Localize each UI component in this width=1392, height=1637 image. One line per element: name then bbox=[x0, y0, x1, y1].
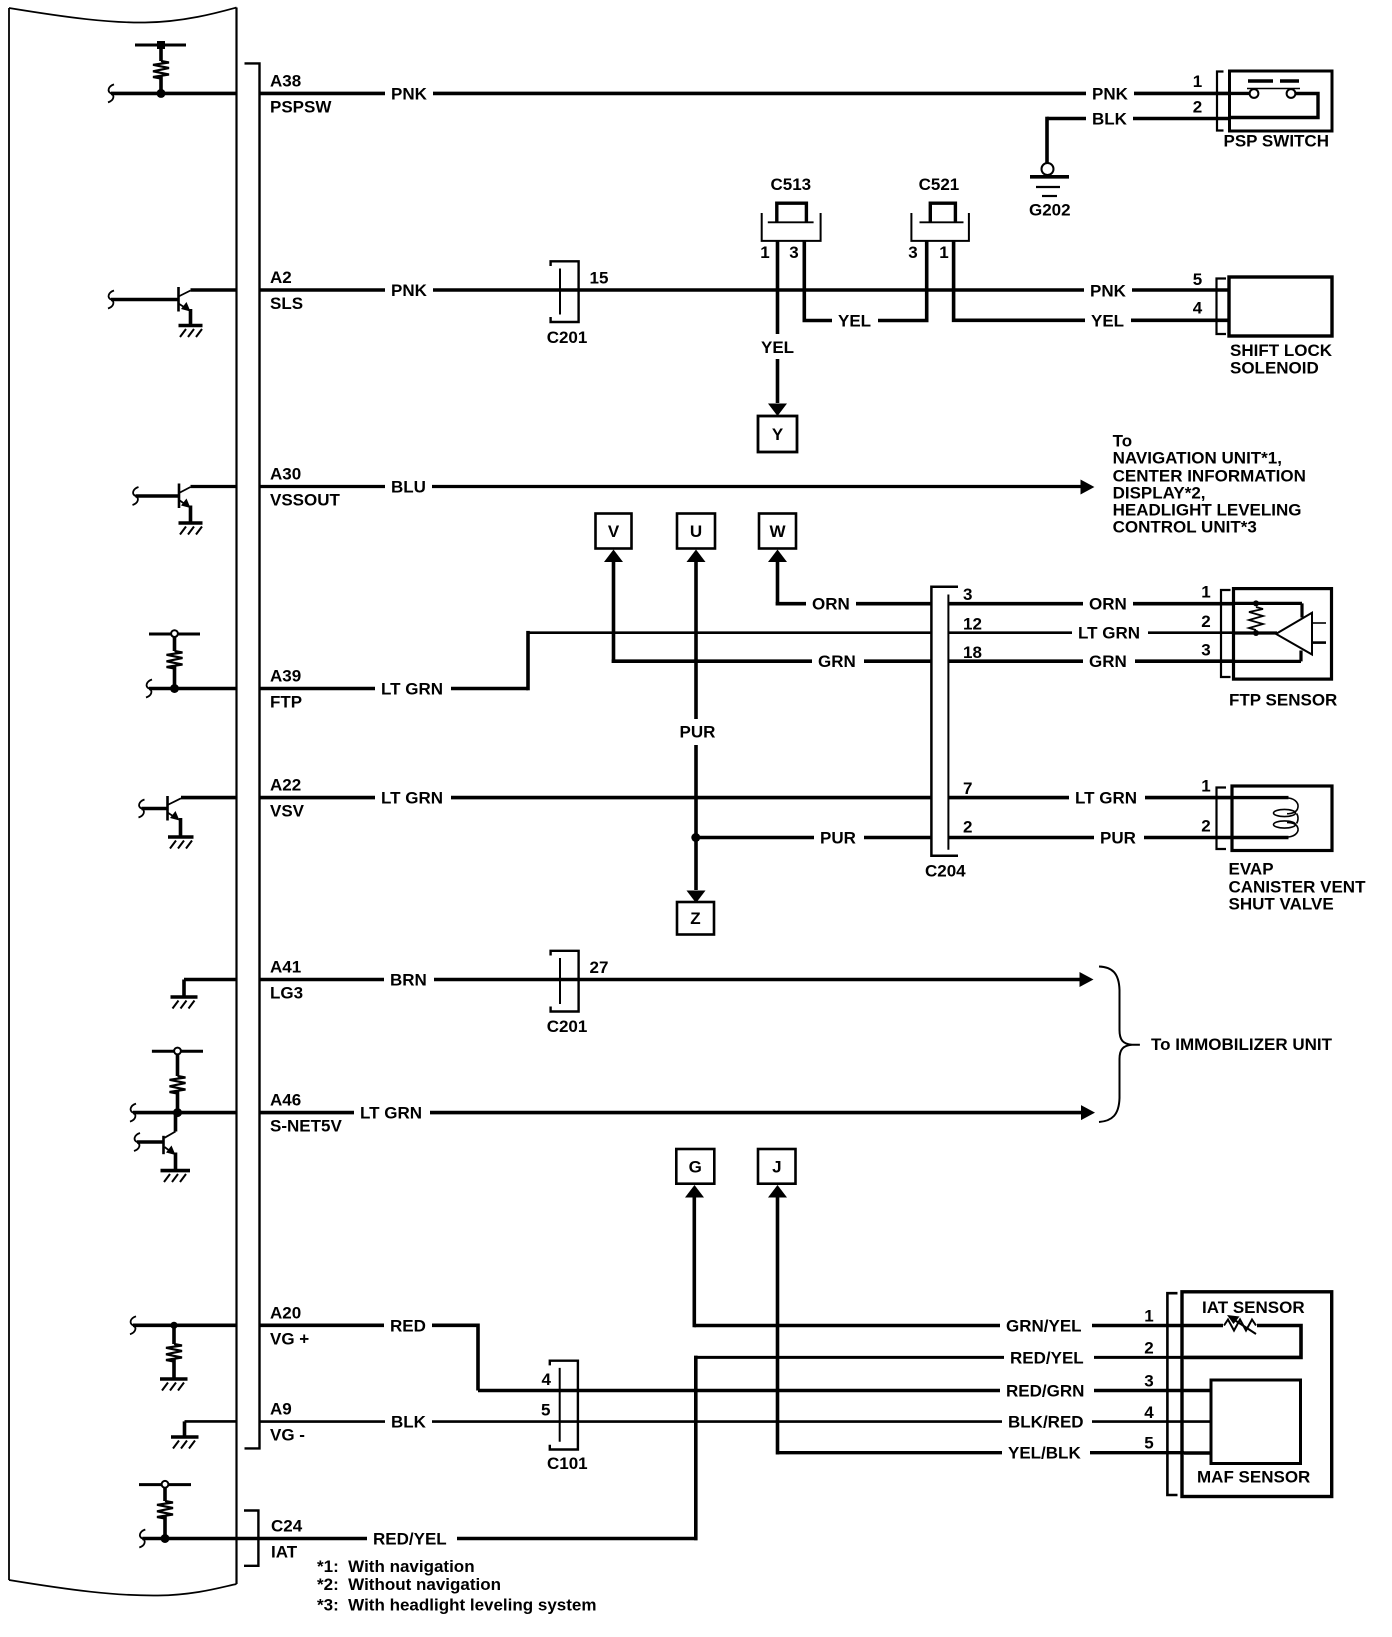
wire C101 pin4 to MAF pin 3 (RED/GRN) bbox=[560, 1389, 1184, 1393]
svg-text:3: 3 bbox=[908, 243, 917, 262]
wire A9 VG- row (BLK) through C101 pin5 to MAF pin 4 (BLK/RED) bbox=[261, 1420, 1185, 1423]
wire A2 SLS row (PNK) bbox=[261, 288, 1230, 292]
ground (A9 VG-) bbox=[171, 1435, 199, 1439]
wire label RED/GRN bbox=[1000, 1381, 1094, 1401]
wire label GRN (left) bbox=[812, 651, 864, 671]
wire A39 in-band bbox=[149, 687, 237, 691]
wire collector A2 to band edge bbox=[191, 288, 238, 292]
wire GRN/YEL row to MAF pin 1 bbox=[694, 1324, 1184, 1328]
svg-text:EVAP: EVAP bbox=[1229, 860, 1274, 879]
wire C24 IAT row (RED/YEL) bbox=[142, 1537, 697, 1541]
svg-text:A38: A38 bbox=[270, 71, 301, 90]
connector C201 (A41 row) bbox=[551, 951, 579, 1012]
wire label LT GRN (EVAP) bbox=[1069, 788, 1145, 808]
connector C101 bbox=[550, 1361, 578, 1450]
svg-text:FTP: FTP bbox=[270, 693, 302, 712]
transistor Q (A46) emitter with arrow bbox=[165, 1147, 173, 1153]
svg-text:J: J bbox=[772, 1158, 781, 1177]
svg-text:A46: A46 bbox=[270, 1091, 301, 1110]
svg-text:PNK: PNK bbox=[1092, 84, 1129, 103]
arrow into V bbox=[604, 550, 623, 563]
wire J vertical bbox=[776, 1190, 780, 1455]
wire label LT GRN (A39) bbox=[375, 679, 451, 699]
resistor (A20 VG+ load) bbox=[166, 1344, 182, 1362]
FTP sensor internal amplifier triangle bbox=[1276, 613, 1312, 655]
svg-text:PNK: PNK bbox=[391, 281, 428, 300]
wire label RED/YEL (C24) bbox=[367, 1529, 457, 1549]
FTP sensor internal resistor bbox=[1249, 607, 1263, 630]
ground G (A41 LG3) bbox=[171, 995, 198, 999]
wire-end hook A22 bbox=[139, 800, 145, 818]
wire PUR row to C204 pin 2 bbox=[696, 836, 931, 840]
svg-text:RED/GRN: RED/GRN bbox=[1006, 1382, 1084, 1401]
svg-text:ORN: ORN bbox=[812, 595, 850, 614]
svg-text:MAF SENSOR: MAF SENSOR bbox=[1197, 1468, 1310, 1487]
svg-text:1: 1 bbox=[939, 243, 948, 262]
pull-up supply bar A46 with circle bbox=[152, 1050, 203, 1053]
wire A30 VSSOUT row (BLU) bbox=[261, 485, 1082, 488]
wire YEL/BLK row from J to MAF pin 5 bbox=[778, 1451, 1185, 1454]
wire-end hook A38 bbox=[108, 84, 114, 102]
svg-text:1: 1 bbox=[1201, 583, 1210, 602]
ECM connector bracket (A-side) bbox=[245, 63, 260, 1448]
wire base lead A30 bbox=[136, 494, 180, 498]
svg-text:DISPLAY*2,: DISPLAY*2, bbox=[1113, 483, 1206, 502]
pull-up supply bar C24 with circle bbox=[139, 1483, 191, 1486]
svg-text:4: 4 bbox=[542, 1370, 552, 1389]
wire A20 jog down to C101 pin 4 bbox=[478, 1324, 560, 1391]
FTP sensor internal pin2 wire bbox=[1235, 631, 1277, 634]
svg-text:SHIFT LOCK: SHIFT LOCK bbox=[1230, 341, 1333, 360]
wire A46 S-NET5V row (LT GRN) bbox=[261, 1111, 1082, 1115]
svg-text:27: 27 bbox=[590, 958, 609, 977]
ground G202 bars bbox=[1030, 175, 1069, 179]
svg-text:PNK: PNK bbox=[1090, 281, 1127, 300]
svg-text:IAT: IAT bbox=[271, 1543, 298, 1562]
svg-text:1: 1 bbox=[760, 243, 769, 262]
FTP sensor internal pin3 wire bbox=[1235, 651, 1301, 662]
svg-text:PNK: PNK bbox=[391, 84, 428, 103]
arrow into G bbox=[685, 1185, 704, 1198]
wire C204 pin7 to EVAP (LT GRN) bbox=[948, 796, 1232, 800]
svg-text:C204: C204 bbox=[925, 862, 966, 881]
svg-text:3: 3 bbox=[963, 585, 972, 604]
svg-text:PSP SWITCH: PSP SWITCH bbox=[1224, 132, 1329, 151]
connector bracket C24 row bbox=[244, 1511, 258, 1566]
arrow into W bbox=[768, 550, 787, 563]
wire resistor to A46 wire bbox=[176, 1092, 180, 1113]
shift lock solenoid bracket bbox=[1217, 279, 1227, 335]
svg-text:7: 7 bbox=[963, 779, 972, 798]
wire supply stub A46 bbox=[176, 1054, 180, 1076]
wire label PNK (A38 right) bbox=[1086, 83, 1134, 103]
transistor Q (A2 SLS driver) base bar bbox=[177, 287, 180, 312]
svg-text:2: 2 bbox=[1201, 817, 1210, 836]
svg-text:A20: A20 bbox=[270, 1303, 301, 1322]
svg-text:A9: A9 bbox=[270, 1400, 292, 1419]
FTP sensor output stubs bbox=[1312, 622, 1326, 624]
wire G202 drop bbox=[1045, 117, 1049, 163]
wire supply stub C24 bbox=[163, 1488, 167, 1502]
wire label LT GRN (C204 pin12) bbox=[1072, 623, 1148, 643]
wire ORN row to C204 pin 3 bbox=[776, 602, 932, 606]
wire A9 in-band bbox=[185, 1420, 238, 1423]
svg-text:*2: Without navigation: *2: Without navigation bbox=[317, 1575, 501, 1594]
junction dot A39 bbox=[170, 684, 179, 693]
resistor (C24 IAT pull-up) bbox=[157, 1501, 173, 1519]
wire collector A30 to band edge bbox=[191, 485, 238, 488]
wire C24 IAT vertical riser bbox=[694, 1356, 698, 1541]
svg-text:BLK: BLK bbox=[391, 1413, 427, 1432]
ECM torn band left edge bbox=[8, 8, 10, 1580]
wire V to GRN row bbox=[612, 556, 616, 663]
wire A22 VSV row (LT GRN) to C204 pin 7 bbox=[261, 796, 932, 800]
svg-text:C101: C101 bbox=[547, 1454, 588, 1473]
svg-text:YEL/BLK: YEL/BLK bbox=[1008, 1444, 1081, 1463]
wire label PNK (A2 left) bbox=[385, 280, 433, 300]
wire label BLU bbox=[385, 477, 432, 497]
ECM torn band top wavy edge bbox=[9, 8, 237, 23]
connector C521 plug bbox=[930, 203, 955, 222]
transistor Q (A2) collector bbox=[179, 291, 191, 297]
wire resistor to ground A20 bbox=[172, 1360, 176, 1378]
node V box bbox=[596, 514, 632, 549]
svg-text:3: 3 bbox=[1144, 1372, 1153, 1391]
wire A41 down to ground bbox=[182, 980, 186, 996]
svg-text:C513: C513 bbox=[771, 175, 812, 194]
arrow into Z bbox=[687, 891, 706, 904]
transistor Q (A30) collector bbox=[179, 487, 191, 493]
wire-end hook A46 bbox=[130, 1104, 136, 1122]
svg-text:5: 5 bbox=[541, 1400, 550, 1419]
wire emitter to ground A22 bbox=[179, 818, 183, 836]
wire label ORN (left) bbox=[806, 594, 856, 614]
wire emitter to ground A2 bbox=[189, 309, 193, 325]
node U box bbox=[677, 514, 715, 549]
brace to immobilizer unit bbox=[1099, 967, 1140, 1123]
wire label LT GRN (A22) bbox=[375, 788, 451, 808]
wire label YEL/BLK bbox=[1002, 1443, 1090, 1463]
svg-text:15: 15 bbox=[590, 269, 609, 288]
wire resistor to A39 wire bbox=[173, 667, 177, 689]
svg-text:*3: With headlight leveling s: *3: With headlight leveling system bbox=[317, 1596, 596, 1615]
node Z box bbox=[677, 902, 714, 935]
node J box bbox=[758, 1149, 796, 1184]
node W box bbox=[759, 514, 796, 549]
supply node square A38 bbox=[157, 41, 165, 49]
svg-text:VG -: VG - bbox=[270, 1426, 305, 1445]
wire A41 LG3 row (BRN) bbox=[261, 978, 1081, 982]
PSP switch contact circles bbox=[1250, 89, 1259, 98]
EVAP valve coil wires bbox=[1234, 796, 1289, 799]
wire label PNK (A38 left) bbox=[385, 83, 433, 103]
svg-text:LT GRN: LT GRN bbox=[1078, 624, 1140, 643]
svg-text:BRN: BRN bbox=[390, 971, 427, 990]
wire resistor to A38 wire bbox=[159, 77, 163, 94]
pull-up supply bar A38 bbox=[135, 44, 186, 47]
wire A20 to resistor bbox=[172, 1325, 176, 1344]
svg-text:*1: With navigation: *1: With navigation bbox=[317, 1557, 475, 1576]
wire C521 pin1 to shift lock solenoid (YEL) bbox=[952, 241, 1229, 320]
node Y box bbox=[758, 416, 797, 452]
wire A38 in-band bbox=[111, 92, 237, 96]
wire label YEL (solenoid) bbox=[1085, 310, 1131, 330]
svg-text:C201: C201 bbox=[547, 1017, 588, 1036]
ECM torn band right edge bbox=[235, 8, 237, 1585]
svg-text:C24: C24 bbox=[271, 1517, 303, 1536]
svg-text:NAVIGATION UNIT*1,: NAVIGATION UNIT*1, bbox=[1113, 449, 1282, 468]
wire label YEL (to Y) bbox=[756, 334, 799, 359]
PSP switch bracket bbox=[1217, 72, 1224, 131]
svg-text:2: 2 bbox=[1144, 1339, 1153, 1358]
svg-text:A22: A22 bbox=[270, 776, 301, 795]
svg-text:SOLENOID: SOLENOID bbox=[1230, 359, 1319, 378]
svg-text:GRN/YEL: GRN/YEL bbox=[1006, 1317, 1082, 1336]
wire-end hook A30 bbox=[133, 487, 139, 505]
wire label PUR (left) bbox=[814, 828, 864, 848]
EVAP valve coil bbox=[1274, 809, 1296, 816]
connector C204 bbox=[931, 587, 958, 856]
svg-text:Y: Y bbox=[772, 425, 784, 444]
svg-text:4: 4 bbox=[1144, 1403, 1154, 1422]
svg-text:VG +: VG + bbox=[270, 1329, 309, 1348]
MAF pin 3 stub bbox=[1184, 1389, 1211, 1393]
junction dot A20 bbox=[170, 1322, 177, 1329]
arrow into U bbox=[687, 550, 706, 563]
transistor Q (A46) collector diagonal bbox=[165, 1132, 176, 1138]
arrow to immobilizer (LT GRN) bbox=[1081, 1105, 1095, 1120]
wire A46 in-band bbox=[133, 1111, 237, 1115]
FTP sensor box bbox=[1234, 589, 1332, 680]
wire label ORN (right) bbox=[1083, 594, 1133, 614]
svg-text:IAT SENSOR: IAT SENSOR bbox=[1202, 1298, 1305, 1317]
svg-text:YEL: YEL bbox=[761, 338, 794, 357]
junction dot A46 bbox=[173, 1108, 182, 1117]
wire A9 down to ground bbox=[183, 1421, 187, 1435]
resistor (A39 FTP pull-up) bbox=[167, 651, 183, 669]
wire C513 pin3 to C521 pin3 (YEL) bbox=[803, 241, 929, 322]
wire-end hook A39 bbox=[146, 680, 152, 698]
svg-text:Z: Z bbox=[690, 909, 700, 928]
connector C201 (A2 row) bbox=[551, 261, 579, 322]
wire resistor to C24 wire bbox=[163, 1517, 167, 1539]
svg-text:RED/YEL: RED/YEL bbox=[1010, 1348, 1084, 1367]
IAT thermistor arrow bbox=[1233, 1319, 1256, 1334]
wire base lead A22 bbox=[142, 807, 168, 811]
connector C521 cup bbox=[911, 213, 969, 241]
transistor Q (A22) collector bbox=[168, 798, 182, 805]
wire U vertical (PUR) upper bbox=[694, 556, 698, 719]
ground (A2 emitter) bbox=[179, 324, 203, 328]
svg-text:RED: RED bbox=[390, 1316, 426, 1335]
wire A39 jog up bbox=[526, 631, 530, 690]
IAT thermistor loop wire bbox=[1184, 1324, 1223, 1328]
wire label PUR (U line) bbox=[674, 719, 718, 744]
svg-text:LT GRN: LT GRN bbox=[1075, 789, 1137, 808]
svg-text:3: 3 bbox=[1201, 641, 1210, 660]
svg-text:A39: A39 bbox=[270, 667, 301, 686]
wire label LT GRN (A46) bbox=[354, 1103, 430, 1123]
IAT/MAF sensor bracket bbox=[1167, 1293, 1177, 1495]
wire label BLK bbox=[1086, 109, 1133, 129]
arrow into J bbox=[768, 1185, 787, 1198]
wire label YEL (C513-C521) bbox=[832, 311, 878, 331]
arrow to immobilizer (BRN) bbox=[1080, 972, 1094, 987]
wire A20 in-band bbox=[133, 1324, 237, 1328]
junction dot C24 bbox=[161, 1534, 170, 1543]
MAF pin 5 stub bbox=[1184, 1451, 1211, 1454]
transistor Q (A30 VSSOUT driver) base bar bbox=[178, 484, 181, 509]
svg-text:LG3: LG3 bbox=[270, 984, 303, 1003]
svg-text:YEL: YEL bbox=[1091, 311, 1124, 330]
svg-text:ORN: ORN bbox=[1089, 595, 1127, 614]
wire C204 pin1 to FTP (ORN) bbox=[948, 602, 1233, 606]
connector C513 plug bbox=[777, 203, 807, 222]
svg-text:A41: A41 bbox=[270, 958, 301, 977]
svg-text:FTP SENSOR: FTP SENSOR bbox=[1229, 691, 1337, 710]
ground (A20) bbox=[160, 1377, 188, 1381]
wire U vertical (PUR) lower bbox=[694, 745, 698, 890]
transistor Q (A2) emitter with arrow bbox=[179, 304, 188, 310]
svg-text:LT GRN: LT GRN bbox=[360, 1104, 422, 1123]
wire label GRN (right) bbox=[1083, 651, 1135, 671]
node G box bbox=[676, 1149, 714, 1184]
transistor Q (A22 VSV driver) base bar bbox=[166, 796, 169, 821]
wire A20 VG+ row (RED) bbox=[261, 1324, 479, 1328]
wire label RED/YEL bbox=[1004, 1347, 1094, 1367]
svg-text:A30: A30 bbox=[270, 465, 301, 484]
transistor Q (A30) emitter with arrow bbox=[179, 500, 187, 506]
svg-text:VSV: VSV bbox=[270, 802, 305, 821]
svg-text:12: 12 bbox=[963, 615, 982, 634]
IAT/MAF sensor outer box bbox=[1182, 1292, 1332, 1497]
svg-text:1: 1 bbox=[1144, 1307, 1153, 1326]
wire RED/YEL row to MAF pin 2 bbox=[696, 1356, 1184, 1359]
svg-text:CONTROL UNIT*3: CONTROL UNIT*3 bbox=[1113, 518, 1257, 537]
svg-text:5: 5 bbox=[1193, 270, 1202, 289]
svg-text:To IMMOBILIZER UNIT: To IMMOBILIZER UNIT bbox=[1151, 1035, 1333, 1054]
svg-text:SLS: SLS bbox=[270, 294, 303, 313]
svg-text:PSPSW: PSPSW bbox=[270, 97, 332, 116]
wire label RED bbox=[384, 1315, 432, 1335]
transistor Q (A22) emitter with arrow bbox=[168, 813, 177, 819]
wire label GRN/YEL bbox=[1000, 1316, 1092, 1336]
svg-text:GRN: GRN bbox=[1089, 652, 1127, 671]
svg-text:2: 2 bbox=[963, 818, 972, 837]
svg-text:2: 2 bbox=[1201, 612, 1210, 631]
svg-text:RED/YEL: RED/YEL bbox=[373, 1530, 447, 1549]
svg-text:1: 1 bbox=[1201, 777, 1210, 796]
EVAP valve bracket bbox=[1217, 788, 1227, 850]
MAF inner box bbox=[1211, 1380, 1301, 1464]
PSP switch box bbox=[1230, 71, 1333, 131]
transistor Q (A46) base bar bbox=[162, 1136, 165, 1154]
svg-text:C201: C201 bbox=[547, 328, 588, 347]
wire C204 pin2 to EVAP (PUR) bbox=[948, 836, 1232, 840]
wire label BLK (A9) bbox=[385, 1412, 432, 1432]
wire emitter to ground A46 bbox=[174, 1153, 178, 1170]
wire A41 in-band bbox=[184, 978, 237, 982]
svg-text:3: 3 bbox=[789, 243, 798, 262]
wire label BRN bbox=[384, 970, 434, 990]
svg-text:V: V bbox=[608, 522, 620, 541]
svg-text:BLK/RED: BLK/RED bbox=[1008, 1413, 1084, 1432]
wire A46 transistor collector stub bbox=[174, 1113, 178, 1132]
svg-text:C521: C521 bbox=[919, 175, 960, 194]
wire G vertical bbox=[692, 1190, 696, 1327]
svg-text:G: G bbox=[689, 1158, 702, 1177]
PSP switch internal loop wire bbox=[1231, 92, 1250, 95]
svg-text:PUR: PUR bbox=[1100, 829, 1136, 848]
junction dot PUR bbox=[691, 833, 700, 842]
svg-text:S-NET5V: S-NET5V bbox=[270, 1117, 342, 1136]
wire supply stub A38 bbox=[159, 45, 163, 61]
wire label BLK/RED bbox=[1002, 1412, 1092, 1432]
svg-text:18: 18 bbox=[963, 643, 982, 662]
ECM torn band bottom wavy edge bbox=[9, 1580, 237, 1596]
resistor (pull-up, A38 PSPSW) bbox=[153, 61, 169, 79]
svg-text:SHUT VALVE: SHUT VALVE bbox=[1229, 895, 1334, 914]
wire supply stub A39 bbox=[173, 637, 177, 651]
wire base lead A2 bbox=[111, 298, 179, 302]
ground (A22 emitter) bbox=[168, 835, 194, 839]
wire-end hook A2 bbox=[108, 291, 114, 309]
svg-text:GRN: GRN bbox=[818, 652, 856, 671]
svg-text:BLK: BLK bbox=[1092, 110, 1128, 129]
svg-text:A2: A2 bbox=[270, 268, 292, 287]
wire collector A22 to band edge bbox=[181, 796, 237, 800]
MAF pin 4 stub bbox=[1184, 1420, 1211, 1423]
wire-end hook A46 base bbox=[134, 1133, 140, 1151]
arrow into Y bbox=[768, 404, 787, 417]
wire C204 pin12 to FTP (LT GRN) bbox=[948, 631, 1233, 634]
svg-text:LT GRN: LT GRN bbox=[381, 789, 443, 808]
wire base lead A46 bbox=[137, 1140, 164, 1144]
resistor (A46 S-NET5V pull-up) bbox=[170, 1076, 186, 1094]
wire-end hook C24 bbox=[139, 1530, 145, 1548]
svg-text:PUR: PUR bbox=[820, 829, 856, 848]
wire C204 pin18 to FTP (GRN) bbox=[948, 659, 1233, 663]
connector C513 cup bbox=[762, 213, 821, 241]
pull-up supply bar A39 with circle bbox=[149, 633, 200, 636]
wire emitter to ground A30 bbox=[189, 506, 193, 523]
wire-end hook A20 bbox=[130, 1316, 136, 1334]
svg-text:5: 5 bbox=[1144, 1434, 1153, 1453]
wire label PNK (A2 right) bbox=[1084, 280, 1132, 300]
svg-text:1: 1 bbox=[1193, 72, 1202, 91]
wire BLK from G202 to PSP switch bbox=[1047, 117, 1230, 121]
svg-text:VSSOUT: VSSOUT bbox=[270, 491, 341, 510]
junction dot A38 bbox=[157, 89, 166, 98]
wire GRN row to C204 pin 18 bbox=[612, 659, 932, 663]
shift lock solenoid box bbox=[1229, 277, 1332, 336]
FTP sensor internal pin1 wire bbox=[1235, 603, 1302, 617]
svg-text:G202: G202 bbox=[1029, 201, 1071, 220]
EVAP valve box bbox=[1232, 786, 1332, 851]
ground (A46 emitter) bbox=[161, 1169, 191, 1173]
wire A38 PSPSW row (PNK) bbox=[261, 92, 1230, 96]
wire A39 FTP row (LT GRN) bbox=[261, 687, 529, 691]
svg-text:PUR: PUR bbox=[680, 723, 716, 742]
FTP sensor bracket bbox=[1221, 590, 1231, 677]
ground G202 circle bbox=[1042, 163, 1054, 175]
PSP switch contacts dashes bbox=[1248, 79, 1299, 82]
svg-text:4: 4 bbox=[1193, 299, 1203, 318]
svg-text:W: W bbox=[769, 522, 786, 541]
wire W to ORN row bbox=[776, 556, 780, 606]
svg-text:2: 2 bbox=[1193, 98, 1202, 117]
svg-text:BLU: BLU bbox=[391, 478, 426, 497]
